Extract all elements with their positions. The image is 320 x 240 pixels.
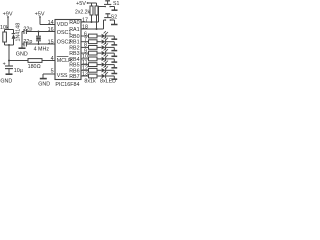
svg-text:2x2.2k: 2x2.2k: [75, 10, 90, 16]
svg-text:10k: 10k: [0, 25, 9, 31]
svg-text:17: 17: [82, 17, 88, 23]
capacitor C3 22p: [22, 42, 26, 47]
svg-text:4: 4: [51, 56, 54, 62]
wire VSS pin 5 to ground: [43, 74, 55, 78]
svg-text:PIC16F84: PIC16F84: [55, 82, 79, 88]
svg-text:16: 16: [48, 27, 54, 33]
node MCLR junction: [8, 60, 10, 62]
text labels: [0, 1, 119, 88]
LED D5: [102, 48, 108, 55]
wire S2 to ground: [111, 20, 115, 24]
ground below C2 C3: [19, 47, 26, 49]
wire LED D3 to ground: [106, 42, 115, 45]
svg-text:+: +: [3, 61, 6, 67]
LED D7: [102, 60, 108, 67]
svg-text:RA1: RA1: [69, 27, 79, 33]
svg-text:S2: S2: [111, 15, 117, 21]
wire LED D8 to ground: [106, 70, 115, 73]
ground below LED D4: [111, 50, 117, 52]
wire OSC2 line pin 15: [26, 43, 55, 45]
wire LED D5 to ground: [106, 53, 115, 56]
wire resistor to LED D8: [97, 69, 101, 71]
resistor R11 1k: [89, 68, 98, 72]
svg-text:GND: GND: [16, 52, 28, 58]
resistor R3 2.2k pullup RA0: [90, 6, 93, 23]
ground below LED D5: [111, 55, 117, 57]
svg-text:RA0: RA0: [69, 20, 79, 26]
wire RB6 pin to resistor: [81, 69, 89, 71]
resistor R12 1k: [89, 74, 98, 78]
wire resistor to LED D9: [97, 75, 101, 77]
svg-text:RB7: RB7: [69, 74, 79, 80]
wire resistor to LED D5: [97, 52, 101, 54]
svg-text:4 MHz: 4 MHz: [34, 46, 50, 52]
svg-text:180Ω: 180Ω: [28, 64, 41, 70]
svg-text:+9V: +9V: [3, 11, 13, 17]
svg-text:15: 15: [48, 39, 54, 45]
wire VDD to pin 14: [40, 24, 55, 26]
ground below LED D9: [111, 78, 117, 80]
pin name MCLR: [57, 57, 72, 65]
LED D6: [102, 54, 108, 61]
svg-text:22p: 22p: [23, 26, 32, 32]
pin number labels: [48, 17, 88, 77]
wire RB2 pin to resistor: [81, 46, 89, 48]
wire RB1 pin to resistor: [81, 41, 89, 43]
wire RA0 pin 17 to S1: [81, 7, 105, 23]
wire MCLR rail to pin 4: [42, 60, 55, 62]
crystal X1 4MHz: [36, 31, 41, 46]
switch S1: [104, 1, 111, 7]
wire RA1 pin 18 to S2: [81, 20, 105, 29]
wire cap ground drop: [21, 32, 23, 48]
wire MCLR rail: [9, 60, 28, 62]
ground below S1: [112, 9, 118, 11]
node +5V terminal: [39, 16, 41, 24]
wire LED D7 to ground: [106, 65, 115, 68]
svg-text:VSS: VSS: [57, 73, 68, 79]
chip pin name labels: [57, 20, 80, 80]
LED D8: [102, 66, 108, 73]
svg-text:GND: GND: [0, 79, 12, 85]
wire RB3 pin to resistor: [81, 52, 89, 54]
switch S2: [104, 14, 111, 21]
svg-text:22p: 22p: [23, 39, 32, 45]
wire S1 to ground: [111, 7, 115, 10]
wire RB7 pin to resistor: [81, 75, 89, 77]
resistor R2 180R: [28, 59, 42, 63]
ground below S2: [111, 24, 118, 26]
node +9V terminal: [7, 16, 9, 29]
resistor R4 2.2k pullup RA1: [95, 6, 98, 30]
svg-text:8x1k: 8x1k: [84, 79, 96, 85]
resistor R7 1k: [89, 46, 98, 50]
ground below C1: [6, 73, 13, 75]
svg-text:1N4148: 1N4148: [15, 23, 21, 42]
resistor R5 1k: [89, 34, 98, 38]
wire LED D4 to ground: [106, 47, 115, 50]
capacitor C1 10u electrolytic: [5, 61, 13, 74]
resistor R6 1k: [89, 40, 98, 44]
ground below VSS: [40, 78, 47, 80]
wire resistor to LED D2: [97, 35, 101, 37]
diode D1 1N4148: [12, 30, 16, 46]
LED D9: [102, 71, 108, 78]
svg-text:10µ: 10µ: [14, 68, 23, 74]
ground below LED D8: [111, 73, 117, 75]
LED D2: [102, 31, 108, 38]
svg-text:18: 18: [82, 24, 88, 30]
capacitor C2 22p: [22, 29, 26, 34]
svg-text:5: 5: [51, 69, 54, 75]
ground below LED D6: [111, 61, 117, 63]
wire OSC1 line pin 16: [26, 31, 55, 33]
svg-text:VDD: VDD: [57, 22, 68, 28]
resistor R9 1k: [89, 57, 98, 61]
wire top rail of reset divider: [5, 29, 14, 31]
wire resistor to LED D6: [97, 58, 101, 60]
wire LED D6 to ground: [106, 59, 115, 62]
svg-text:+5V: +5V: [76, 1, 86, 7]
wire RB4 pin to resistor: [81, 58, 89, 60]
LED D4: [102, 43, 108, 50]
wire resistor to LED D4: [97, 46, 101, 48]
ground below LED D7: [111, 67, 117, 69]
ground below LED D3: [111, 44, 117, 46]
ground below LED D2: [111, 38, 117, 40]
resistor R10 1k: [89, 63, 98, 67]
node +5V terminal top right: [87, 2, 97, 6]
wire RB0 pin to resistor: [81, 35, 89, 37]
RB output rows: resistor, LED, ground: [81, 31, 117, 79]
wire resistor to LED D7: [97, 64, 101, 66]
wire RB5 pin to resistor: [81, 64, 89, 66]
wire bottom rail of reset divider: [5, 44, 14, 61]
wire LED D2 to ground: [106, 36, 115, 39]
svg-text:GND: GND: [38, 82, 50, 88]
resistor R1 10k: [3, 30, 7, 46]
resistor R8 1k: [89, 51, 98, 55]
svg-text:14: 14: [48, 20, 54, 26]
svg-text:S1: S1: [113, 1, 119, 7]
IC U1 PIC16F84 body: [55, 20, 81, 80]
wire resistor to LED D3: [97, 41, 101, 43]
LED D3: [102, 37, 108, 44]
svg-text:+5V: +5V: [35, 11, 45, 17]
wire LED D9 to ground: [106, 76, 115, 79]
